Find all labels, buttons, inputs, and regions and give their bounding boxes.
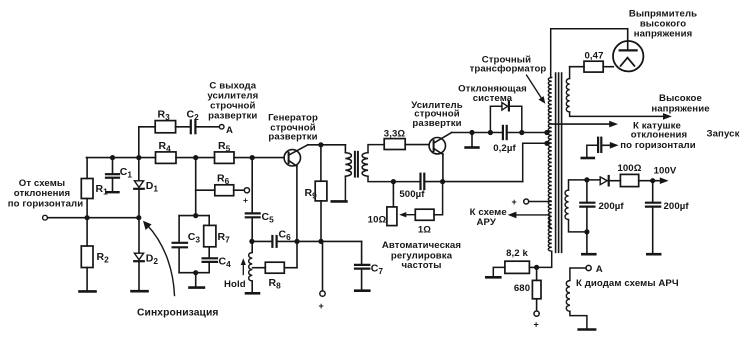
ground below D2 [132,290,148,293]
wire R8 right riser [296,241,298,267]
resistor R1 [81,179,93,199]
wire C7 branch [361,241,363,264]
inductor Hold coil [249,253,253,282]
ground below R2 [80,290,96,293]
wire R3-C2 [176,126,190,128]
terminal + bottom [320,291,325,296]
terminal A [219,125,224,130]
wire Q2 collector row [452,132,502,134]
terminal R6 [244,188,249,193]
node gnd tap [469,130,474,135]
wire R5-Q1 [234,157,284,159]
ground 8.2k [486,276,500,279]
svg-text:200µf: 200µf [664,201,690,212]
wire R3 row [139,126,155,128]
wire C3 block bottom rail [179,272,209,274]
svg-text:+: + [243,195,248,205]
flyback transformer top lead [551,29,628,78]
diode 100V [600,177,607,185]
arrow to ARU [516,215,552,229]
resistor R5 [215,152,235,164]
svg-text:500µf: 500µf [399,189,425,200]
arrow 100V [660,177,669,184]
wiper arrow 10ohm [404,214,416,216]
resistor R6 [196,189,215,191]
node emitter junction Q2 [440,179,445,184]
resistor R8 [253,267,266,269]
svg-text:200µf: 200µf [599,201,625,212]
ground below Hold coil [246,292,259,295]
resistor 0.47 [570,66,584,68]
node C5 top [250,155,255,160]
terminal A right [586,265,591,270]
wire input row [48,217,139,219]
node R9 top [318,142,323,147]
wire D1 column [138,127,140,181]
ground stub Q2 [471,133,473,147]
svg-text:A: A [226,125,233,136]
wire R2 top [86,218,88,246]
tube HV rectifier [613,41,643,71]
diode D2 [138,218,140,253]
capacitor C6 [252,240,272,242]
transformer T1 right coil [362,153,368,177]
transformer T1 left coil [344,145,346,153]
svg-text:3,3Ω: 3,3Ω [384,129,406,140]
resistor R4 [156,152,177,164]
resistor R9 [315,181,327,201]
Hold arrow [242,262,244,275]
resistor 1ohm [415,209,434,220]
svg-text:Автоматическая: Автоматическая [382,240,461,251]
flyback primary bottom lead [537,251,552,267]
node C3 block bottom [193,270,198,275]
svg-text:0,2µf: 0,2µf [493,143,516,154]
flyback primary winding [548,78,551,252]
node J1 [85,215,90,220]
node input terminal [43,215,48,220]
svg-text:отклонения: отклонения [14,188,71,199]
node tap2 [544,141,549,146]
node C6 left [249,239,254,244]
node D1 column top [136,155,141,160]
wire C3 branch [178,216,180,242]
svg-text:+: + [534,320,539,330]
resistor 8.2k [529,266,536,268]
resistor R2 [81,246,93,268]
capacitor C3 [173,242,187,244]
node deflection branch right [519,130,524,135]
svg-text:по горизонтали: по горизонтали [620,140,695,151]
terminal + flyback tap [524,199,529,204]
capacitor C5 [246,212,260,214]
svg-text:+: + [319,301,324,311]
potentiometer 10ohm [392,182,394,207]
node 10ohm top [391,179,396,184]
node 200uf1 top [584,177,589,182]
ground below C3 block [190,286,204,289]
resistor R3 [155,121,175,133]
wire R1 column [86,158,88,179]
svg-text:+: + [512,197,517,207]
terminal 680 bottom [534,311,539,316]
resistor 3.3ohm [384,139,405,150]
node 100V [650,178,655,183]
resistor 680 [536,267,538,280]
svg-text:8,2 k: 8,2 k [506,248,528,259]
node 8.2k junction [534,265,539,270]
ground below C7 [355,289,369,292]
ground ARF coil [579,328,595,331]
node R4R5 [193,155,198,160]
capacitor C1 [112,158,114,173]
winding 100V [565,190,568,220]
arrow transformer label [527,75,542,99]
deflection coil arrow [552,123,612,125]
arrow sync [147,225,175,296]
node deflection branch left [488,130,493,135]
svg-text:100Ω: 100Ω [617,163,641,174]
wire Q1 collector row [308,144,346,146]
svg-text:АРУ: АРУ [476,217,496,228]
flyback core [555,73,557,252]
capacitor to ground with arrow [582,157,594,160]
wire R2 bottom [86,268,88,292]
transformer T1 core [354,152,356,177]
svg-text:1Ω: 1Ω [418,224,431,235]
wire Q2 emitter [442,154,444,182]
svg-text:Запуск: Запуск [707,129,740,140]
svg-text:трансформатор: трансформатор [470,64,547,75]
HV winding [569,67,571,79]
node rail a [318,239,323,244]
wire C5 column [251,158,253,213]
svg-text:напряжение: напряжение [651,103,709,114]
wire main row y157 [86,157,155,159]
100V winding branch [569,180,601,190]
svg-text:развертки: развертки [208,111,257,122]
svg-text:напряжения: напряжения [634,28,693,39]
capacitor 200uf 1 [586,180,588,202]
svg-text:Синхронизация: Синхронизация [137,307,219,318]
svg-text:A: A [596,264,603,275]
wire R1 bottom [86,199,88,218]
node C6 right [294,239,299,244]
capacitor C7 [355,264,369,266]
wire R9 column [320,145,322,181]
capacitor 0.2uf [502,126,504,139]
wire R4-R5 [176,157,215,159]
svg-text:по горизонтали: по горизонтали [8,199,83,210]
HV arrow [570,112,666,116]
transistor Q2 [429,138,445,154]
transistor Q1 [284,150,300,166]
node 200uf1 bottom [584,229,589,234]
svg-text:развертки: развертки [268,132,317,143]
svg-text:К диодам схемы АРЧ: К диодам схемы АРЧ [576,278,679,289]
svg-text:10Ω: 10Ω [368,214,387,225]
wire to +terminal [322,241,324,290]
wire emitter rail [297,240,362,242]
diode D1 [134,181,143,188]
capacitor 200uf 2 [652,181,654,202]
svg-text:100V: 100V [654,166,677,177]
node C1 top [110,155,115,160]
svg-text:частоты: частоты [401,260,441,271]
ground T1 left [332,200,347,203]
wire R7 branch [208,216,210,226]
wire deflection branch [490,106,502,132]
wire C2-A [196,126,219,128]
ground 200uf1 [582,253,595,256]
ARF pickup coil [570,268,586,280]
node C3 block top [193,213,198,218]
svg-text:Hold: Hold [224,279,246,290]
node tap1 [544,130,549,135]
ground 200uf2 [647,253,660,256]
wire Q1 emitter [296,166,298,242]
svg-text:развертки: развертки [412,118,461,129]
wire C3 block top rail [179,215,209,217]
svg-text:0,47: 0,47 [584,50,603,61]
capacitor C4 [203,257,217,259]
wire to transformer tap2 [523,143,547,181]
capacitor C2 [190,121,192,134]
svg-text:система: система [473,93,513,104]
node J2 [136,215,141,220]
diode deflection [502,103,508,111]
wire to R6 and C3 block [195,158,197,216]
svg-text:680: 680 [514,283,530,294]
capacitor 500uf [419,174,421,189]
resistor 100ohm [620,174,638,186]
resistor R7 [204,225,216,246]
